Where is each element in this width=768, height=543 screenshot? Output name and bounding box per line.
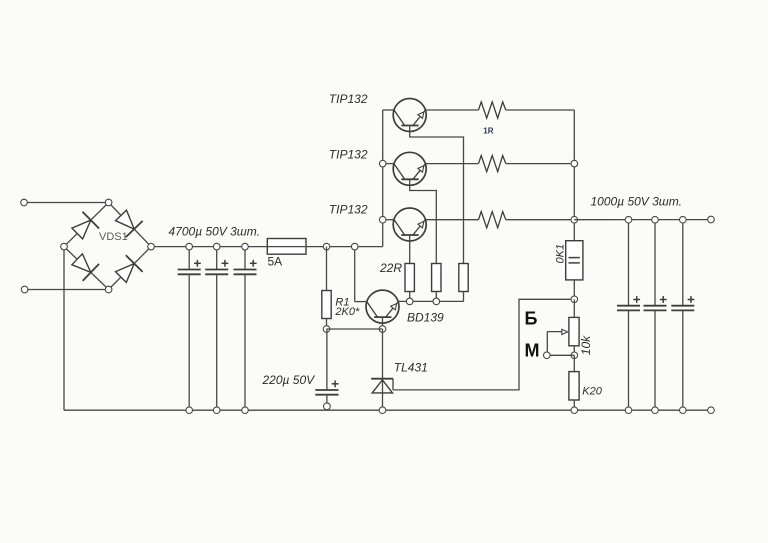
svg-text:4700µ 50V 3шт.: 4700µ 50V 3шт. xyxy=(169,225,260,239)
svg-text:TL431: TL431 xyxy=(394,360,428,374)
svg-text:0K1: 0K1 xyxy=(555,244,567,264)
svg-text:K20: K20 xyxy=(582,386,602,398)
svg-text:5A: 5A xyxy=(268,255,283,269)
svg-text:2K0*: 2K0* xyxy=(334,306,360,318)
svg-text:22R: 22R xyxy=(379,261,402,275)
svg-text:М: М xyxy=(525,341,540,361)
svg-text:TIP132: TIP132 xyxy=(329,203,368,217)
svg-text:220µ 50V: 220µ 50V xyxy=(262,373,316,387)
svg-text:TIP132: TIP132 xyxy=(329,148,368,162)
svg-text:10k: 10k xyxy=(579,335,593,355)
svg-text:BD139: BD139 xyxy=(407,311,444,325)
svg-text:Б: Б xyxy=(525,309,538,329)
svg-text:TIP132: TIP132 xyxy=(329,92,368,106)
svg-text:VDS1: VDS1 xyxy=(99,231,128,243)
svg-text:1000µ 50V 3шт.: 1000µ 50V 3шт. xyxy=(591,195,682,209)
svg-text:1R: 1R xyxy=(483,127,493,136)
